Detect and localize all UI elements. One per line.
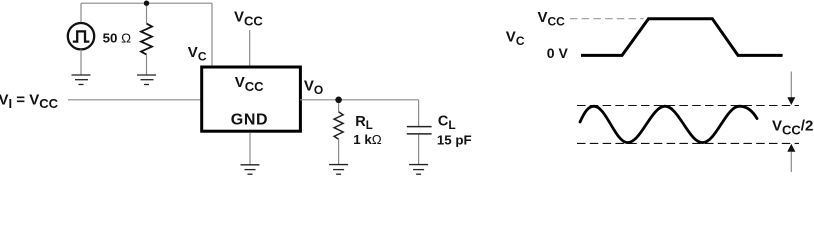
- svg-text:VO: VO: [304, 77, 323, 97]
- svg-text:GND: GND: [231, 111, 268, 128]
- svg-text:VCC: VCC: [234, 9, 263, 29]
- svg-text:VI = VCC: VI = VCC: [0, 91, 59, 111]
- svg-text:50 Ω: 50 Ω: [103, 30, 132, 45]
- svg-text:VC: VC: [506, 28, 525, 48]
- svg-text:RL: RL: [355, 114, 373, 132]
- svg-text:CL: CL: [438, 114, 456, 132]
- svg-text:15 pF: 15 pF: [437, 132, 472, 147]
- svg-text:1 kΩ: 1 kΩ: [353, 132, 382, 147]
- svg-text:VCC: VCC: [538, 9, 566, 29]
- svg-text:VCC/2: VCC/2: [772, 118, 813, 138]
- svg-text:VC: VC: [188, 44, 207, 64]
- svg-text:0 V: 0 V: [547, 45, 569, 61]
